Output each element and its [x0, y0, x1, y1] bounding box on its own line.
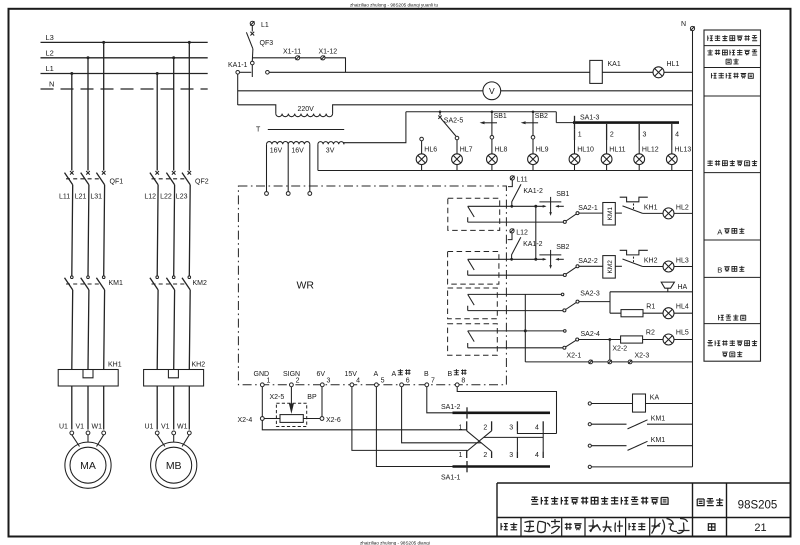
wire to motor MA [72, 435, 104, 447]
svg-text:L2: L2 [46, 48, 54, 57]
svg-text:21: 21 [754, 522, 766, 534]
svg-text:HL3: HL3 [676, 257, 689, 264]
svg-text:X2-4: X2-4 [238, 417, 253, 424]
svg-text:V: V [489, 86, 495, 96]
wire KH2 to HL3 [643, 266, 663, 268]
wire 16V stubs to WR terminals [267, 144, 310, 191]
function table frame [704, 30, 761, 361]
svg-text:HL6: HL6 [424, 146, 437, 153]
contact ticks SA1-2 (1-4) [466, 421, 468, 431]
svg-text:W1: W1 [177, 424, 188, 431]
bus N (dashed) [41, 88, 208, 90]
terminal common row 4 [588, 465, 591, 468]
svg-text:R2: R2 [646, 330, 655, 337]
svg-text:KH2: KH2 [192, 362, 206, 369]
svg-text:3: 3 [509, 452, 513, 459]
svg-text:R1: R1 [646, 303, 655, 310]
wire QF1 drops [72, 42, 104, 170]
svg-text:2: 2 [483, 424, 487, 431]
pushbutton SB2 (lamp test) [532, 110, 535, 113]
row7 label baojing tishi [719, 315, 746, 321]
wire lamp return rail [318, 170, 693, 172]
wire SA2-2 to KM2 [579, 265, 603, 267]
resistor R2 [621, 336, 643, 343]
svg-text:HL12: HL12 [642, 146, 659, 153]
svg-text:SB2: SB2 [556, 244, 569, 251]
relay coil KA1 [590, 60, 603, 83]
svg-text:4: 4 [675, 132, 679, 139]
terminal L12 [510, 229, 514, 233]
alarm branch frame [610, 292, 693, 313]
svg-text:X2-1: X2-1 [567, 352, 582, 359]
terminal KM1 row 2 [588, 423, 591, 426]
wire common drop A-B [535, 206, 537, 259]
svg-text:X2-5: X2-5 [270, 394, 285, 401]
svg-text:L3: L3 [46, 33, 54, 42]
pushbutton SB1 (lamp test) [491, 110, 494, 113]
terminal X1-11 [296, 56, 300, 60]
transformer secondary 16V winding b [288, 142, 310, 145]
wire KA to right rail [646, 403, 693, 405]
wire row B upper [468, 258, 546, 260]
selector SA2-3 [563, 309, 566, 312]
wire X1-12 down to rail [325, 58, 346, 73]
svg-text:L12: L12 [516, 229, 528, 236]
wire row A lower [468, 221, 564, 223]
node open throw SA2-4 [564, 330, 567, 333]
lamp HL8 [487, 154, 498, 165]
transformer secondary 3V winding [318, 142, 344, 145]
lamp HL10 [569, 154, 580, 165]
buzzer HA [661, 282, 674, 292]
wire HL1 to N [664, 71, 693, 73]
svg-text:3: 3 [643, 132, 647, 139]
svg-text:L31: L31 [90, 194, 102, 201]
label shenhe [501, 523, 508, 530]
wire row D lower [468, 347, 563, 349]
wire common row 4 [591, 466, 692, 468]
wire GND drop to X2-4 [261, 387, 263, 417]
float contact box D (dashed) [448, 324, 498, 356]
svg-text:2: 2 [296, 378, 300, 385]
svg-text:N: N [681, 21, 686, 28]
svg-text:T: T [256, 127, 261, 134]
node QF2 pole taps [156, 72, 159, 75]
switch QF3 [251, 26, 253, 32]
wire row B lower [468, 274, 564, 276]
wire X2-4 to BP [264, 418, 280, 420]
wire R1 to HL4 [643, 312, 663, 314]
svg-text:BP: BP [307, 394, 317, 401]
svg-text:1: 1 [459, 452, 463, 459]
wire rail X1 row [252, 57, 295, 59]
svg-text:1: 1 [267, 378, 271, 385]
wire KA1 to HL1 [602, 71, 653, 73]
svg-text:L11: L11 [59, 194, 70, 201]
wire row C lower [468, 310, 563, 312]
svg-text:L12: L12 [144, 194, 156, 201]
bus L3 [41, 41, 208, 43]
svg-text:SA1-2: SA1-2 [441, 404, 461, 411]
wire SIGN drop to BP wiper [290, 387, 292, 404]
resistor R1 [621, 310, 643, 317]
svg-text:MA: MA [80, 460, 96, 472]
svg-text:1: 1 [459, 424, 463, 431]
float contact box C (dashed) [448, 288, 498, 319]
wire N vertical rail [692, 31, 694, 467]
svg-text:L1: L1 [46, 64, 54, 73]
transformer secondary 16V winding a [267, 142, 289, 145]
svg-text:4: 4 [356, 378, 360, 385]
svg-text:L11: L11 [517, 176, 528, 183]
terminal 16V secondary b [308, 192, 312, 196]
voltmeter V [483, 82, 501, 100]
potentiometer wiper arrow [289, 404, 294, 414]
svg-text:8: 8 [461, 378, 465, 385]
wire SA2-3 to alarm branch [579, 301, 610, 303]
svg-text:SA1-1: SA1-1 [441, 474, 461, 481]
float contact A [468, 206, 475, 222]
terminal 16V secondary a [265, 192, 269, 196]
lamp HL6 [416, 154, 427, 165]
svg-text:W1: W1 [92, 424, 103, 431]
row5 label A beng kongzhi [717, 227, 744, 236]
contact KA1-2 (A row) [508, 180, 512, 187]
svg-text:5: 5 [381, 378, 385, 385]
transducer BP (dashed box) [276, 403, 306, 426]
wire step to SA1-3 [555, 112, 557, 123]
terminal X2-3 [628, 360, 632, 364]
wire lamp feed rail [406, 111, 556, 113]
svg-text:MB: MB [166, 460, 182, 472]
svg-text:X1-12: X1-12 [319, 49, 338, 56]
contact ticks SA1-3 positions 1-4 [574, 130, 576, 140]
svg-text:SB1: SB1 [556, 191, 569, 198]
wire top rail to KA1 coil [269, 71, 590, 73]
node open throw SA2-3 [561, 293, 564, 296]
svg-text:B: B [424, 371, 429, 378]
label tujihao [697, 499, 704, 506]
svg-text:V1: V1 [161, 424, 170, 431]
wire B-auto drop to contact 3 [457, 387, 556, 434]
node KA1-1 junction [251, 61, 255, 65]
svg-text:SA2-5: SA2-5 [444, 117, 464, 124]
selector SA2-4 [563, 346, 566, 349]
selector bar SA1-1 [453, 465, 551, 468]
svg-text:16V: 16V [291, 147, 304, 154]
svg-text:2: 2 [610, 132, 614, 139]
svg-text:WR: WR [297, 280, 315, 292]
svg-text:V1: V1 [76, 424, 85, 431]
wire KH1 to HL2 [643, 212, 663, 214]
wire KM2 to KH2 [157, 290, 190, 370]
wire SA2-1 to KM1 [579, 212, 603, 214]
svg-text:A: A [392, 371, 397, 378]
svg-text:QF3: QF3 [260, 40, 274, 47]
svg-text:2: 2 [483, 452, 487, 459]
svg-text:6: 6 [406, 378, 410, 385]
float contact box A (dashed) [448, 198, 500, 230]
svg-text:1: 1 [578, 132, 582, 139]
wire X2 bottom line [525, 361, 692, 363]
thermal contact KH1 [615, 212, 622, 214]
terminal L11 [510, 176, 514, 180]
svg-text:SA2-4: SA2-4 [581, 331, 601, 338]
svg-text:220V: 220V [298, 106, 315, 113]
svg-text:KH1: KH1 [644, 204, 658, 211]
selector SA2-5 [439, 112, 441, 115]
svg-text:3: 3 [327, 378, 331, 385]
svg-text:HL4: HL4 [676, 303, 689, 310]
lamp HL2 [663, 208, 674, 219]
contactor coil KM2 [603, 256, 616, 279]
svg-text:HL9: HL9 [536, 146, 549, 153]
wire HL5 to N rail [674, 339, 693, 341]
signature sheji [652, 519, 690, 535]
wire QF1 to KM1 [72, 185, 105, 276]
row6 label B beng kongzhi [717, 265, 744, 274]
lamp HL1 [653, 67, 664, 78]
float contact C [468, 294, 475, 310]
svg-text:HL10: HL10 [577, 146, 594, 153]
wire KM1 to KH1 [72, 290, 105, 370]
label jiaodui [565, 523, 572, 530]
svg-text:3: 3 [509, 424, 513, 431]
svg-text:KM1: KM1 [651, 437, 666, 444]
svg-text:98S205: 98S205 [738, 500, 778, 512]
svg-text:U1: U1 [59, 424, 68, 431]
row8 label qi xiaofang zhubeng xinhao yu xianshi [707, 340, 757, 357]
svg-text:L22: L22 [160, 194, 172, 201]
svg-text:X1-11: X1-11 [283, 49, 301, 56]
svg-text:HA: HA [678, 284, 688, 291]
pushbutton SB1 (A row) [543, 205, 547, 208]
svg-text:B: B [717, 265, 722, 274]
svg-text:KH2: KH2 [644, 257, 658, 264]
contact KA1-2 (B row) [508, 233, 512, 240]
svg-text:SB1: SB1 [494, 113, 507, 120]
wire to motor MB [157, 435, 189, 447]
terminal X1-12 [321, 56, 325, 60]
svg-text:HL8: HL8 [495, 146, 508, 153]
terminal HL6 top [420, 137, 424, 141]
wire row D upper [468, 330, 564, 332]
wire row A upper [468, 205, 546, 207]
terminal L1 [250, 21, 254, 25]
contactor coil KM1 [603, 203, 616, 226]
wire QF3 down [251, 49, 254, 61]
wire HL4 to N rail [674, 312, 693, 314]
svg-text:SB2: SB2 [535, 113, 548, 120]
bus L2 [41, 57, 208, 59]
label ye (page) [708, 524, 715, 531]
row1 label dianyuan kongzhi yu baohu [708, 35, 757, 41]
svg-text:KM1: KM1 [651, 415, 666, 422]
svg-text:16V: 16V [270, 147, 283, 154]
drawing title zengya wenya beng zidong kongzhi dianqi yuanli tu [531, 497, 668, 505]
signature jiaodui [589, 520, 624, 533]
wire B drop to SA1-2 bar [427, 387, 453, 413]
svg-text:3V: 3V [326, 147, 335, 154]
svg-text:HL13: HL13 [675, 146, 692, 153]
svg-text:X2-2: X2-2 [612, 346, 627, 353]
lamp HL3 [663, 261, 674, 272]
lamp HL9 [528, 154, 539, 165]
wire X2-2 drop [609, 340, 611, 361]
lamp HL4 [663, 308, 674, 319]
contact KA1-1 blade [251, 65, 253, 77]
row4 label gongwei kongzhi yu xianshi [707, 160, 757, 166]
wire HL3 to N rail [674, 266, 693, 268]
svg-text:N: N [49, 80, 54, 89]
svg-text:6V: 6V [317, 371, 326, 378]
wire 3V left stub to lamp return rail [317, 144, 319, 170]
wire 220V primary left feed [238, 105, 276, 114]
wire left vertical [237, 74, 239, 105]
bus L1 [41, 73, 208, 75]
svg-text:A: A [374, 371, 379, 378]
wire QF2 to KM2 [157, 185, 190, 276]
svg-text:X2-6: X2-6 [326, 417, 341, 424]
wire A-auto drop to cross tap [402, 387, 482, 443]
wire lamp bottom stubs [422, 165, 672, 171]
wire 15V drop to matrix [352, 387, 467, 452]
relay coil KA [633, 394, 646, 412]
motor MB [151, 442, 197, 488]
svg-text:U1: U1 [145, 424, 154, 431]
contact ticks SA1-1 (1-4) [466, 451, 468, 458]
wire 6V drop to X2-6 [321, 387, 323, 417]
svg-text:B: B [448, 371, 453, 378]
svg-text:KA1-2: KA1-2 [523, 188, 543, 195]
lamp HL7 [452, 154, 463, 165]
lamp HL11 [601, 154, 612, 165]
thermal contact KH2 [615, 265, 622, 267]
wire BP to X2-6 [303, 418, 320, 420]
lamp HL12 [634, 154, 645, 165]
row3 label dianyuan dianya zhishi [711, 73, 753, 79]
svg-text:KM2: KM2 [607, 260, 614, 274]
svg-text:7: 7 [431, 378, 435, 385]
signature shenhe [524, 519, 560, 534]
wire SA2-4 to R2 [579, 339, 621, 341]
motor MA [65, 442, 111, 488]
svg-text:4: 4 [535, 452, 539, 459]
wire row C upper [468, 293, 562, 295]
title block frame [497, 483, 790, 537]
contactor KM1 [65, 276, 105, 290]
row2 label xitong tuichu kongzhi yu xianshi [707, 49, 757, 64]
svg-text:KA1: KA1 [608, 61, 621, 68]
node QF1 pole taps [70, 72, 73, 75]
wire branch to contact 3 lower [484, 437, 543, 451]
svg-text:HL7: HL7 [460, 146, 473, 153]
wire branch to contact 3 upper [517, 431, 556, 434]
svg-text:KM1: KM1 [607, 207, 614, 221]
svg-text:HL11: HL11 [609, 146, 625, 153]
wire X1-11 to X1-12 [300, 57, 321, 59]
wire cross X (1-2 swap) [467, 431, 492, 452]
terminal HL7 top [455, 136, 459, 140]
terminal X2-6 [320, 417, 324, 421]
wire lamp top stubs [422, 139, 672, 154]
svg-text:HL2: HL2 [676, 204, 689, 211]
node common vertical rows C-D [524, 294, 526, 362]
wire 3V right stub to lamp feed [344, 112, 406, 144]
wire HL2 to N rail [674, 212, 693, 214]
terminal KA row 1 [588, 402, 591, 405]
svg-text:zhaiziliao zhulong - 98S205 di: zhaiziliao zhulong - 98S205 dianqi yuanl… [350, 3, 439, 8]
wire A drop to SA1-1 bar [376, 387, 452, 467]
resistor element BP [280, 415, 303, 423]
svg-text:KH1: KH1 [108, 362, 122, 369]
terminal X2-2 [608, 360, 612, 364]
float contact box B (dashed) [448, 252, 499, 285]
svg-text:QF2: QF2 [195, 179, 209, 186]
lamp HL5 [663, 334, 674, 345]
terminal X2-1 [589, 360, 593, 364]
selector SA2-2 [563, 274, 566, 277]
svg-text:L21: L21 [75, 194, 87, 201]
lamp HL13 [666, 154, 677, 165]
selector SA2-1 [563, 220, 566, 223]
wire QF2 drops [157, 42, 189, 170]
svg-text:SA1-3: SA1-3 [580, 114, 600, 121]
svg-text:X2-3: X2-3 [635, 352, 650, 359]
svg-text:L1: L1 [261, 22, 269, 29]
svg-text:KA: KA [650, 395, 660, 402]
float contact D [468, 331, 475, 348]
breaker QF2 [150, 171, 191, 185]
wire contact 4 link [542, 431, 544, 452]
svg-text:L23: L23 [176, 194, 188, 201]
svg-text:4: 4 [535, 424, 539, 431]
svg-text:SA2-1: SA2-1 [578, 205, 598, 212]
svg-text:SA2-3: SA2-3 [580, 290, 600, 297]
wire R2 to HL5 [643, 339, 663, 341]
wire 220V primary right to N rail [333, 105, 693, 114]
svg-text:KM2: KM2 [193, 280, 208, 287]
label sheji [629, 523, 636, 530]
svg-text:KM1: KM1 [109, 280, 124, 287]
svg-text:KA1-1: KA1-1 [228, 62, 248, 69]
float contact B [468, 259, 475, 275]
breaker QF1 [65, 171, 106, 185]
svg-text:HL5: HL5 [676, 330, 689, 337]
terminal KM1 row 3 [588, 444, 591, 447]
controller box WR (dash-dot) [238, 186, 506, 385]
svg-text:zhaiziliao zhulong - 98S205 di: zhaiziliao zhulong - 98S205 dianqi [360, 541, 430, 545]
contactor KM2 [150, 276, 191, 290]
terminal 16V secondary centre [286, 192, 290, 196]
wire to KA coil [591, 403, 632, 405]
svg-text:HL1: HL1 [667, 61, 680, 68]
svg-text:QF1: QF1 [110, 179, 124, 186]
svg-text:SA2-2: SA2-2 [578, 258, 598, 265]
wire GND to matrix contact 1 [262, 420, 466, 429]
svg-text:KA1-2: KA1-2 [523, 241, 543, 248]
wire V rail [238, 90, 693, 92]
pushbutton SB2 (B row) [543, 258, 547, 261]
